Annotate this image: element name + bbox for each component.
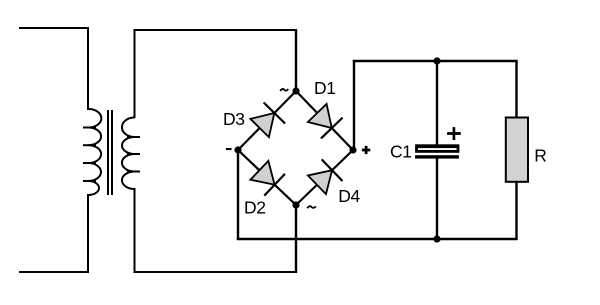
svg-text:D2: D2 [244, 197, 266, 217]
secondary winding cusp ticks [127, 137, 140, 172]
wire bridge arm bottom-right [296, 150, 353, 205]
wire down to bridge top node [295, 29, 297, 91]
plus sign at right node [362, 146, 370, 154]
junction dot capacitor bottom [433, 235, 440, 242]
resistor R body [506, 118, 528, 182]
transformer core line right [111, 110, 113, 195]
wire secondary bottom horizontal return [134, 271, 298, 273]
wire secondary top horizontal [134, 29, 298, 31]
svg-text:D3: D3 [223, 109, 245, 129]
transformer secondary winding [122, 118, 135, 190]
wire bridge bottom node down [295, 205, 297, 273]
diode D3 [249, 102, 285, 138]
transformer primary winding [89, 109, 102, 195]
wire primary top AC lead [19, 27, 89, 29]
minus sign at left node [226, 148, 232, 150]
wire capacitor bottom lead [436, 159, 438, 240]
svg-text:D1: D1 [314, 78, 336, 98]
wire negative bus vertical from left node [237, 150, 239, 240]
wire bridge arm top-right [296, 91, 353, 150]
plus sign at capacitor [447, 127, 461, 140]
junction dot bridge left node [234, 146, 241, 153]
wire primary top vertical [87, 27, 89, 110]
junction dot bridge right node [349, 146, 356, 153]
wire bridge arm bottom-left [238, 150, 296, 205]
AC tilde at top node [280, 89, 288, 91]
wire positive bus down to resistor [515, 60, 517, 118]
diode D4 [307, 159, 343, 195]
diode D2 [249, 159, 285, 195]
wire positive bus horizontal [353, 60, 518, 62]
wire primary bottom vertical [87, 194, 89, 272]
wire resistor bottom lead [515, 182, 517, 241]
wire secondary top vertical [134, 30, 136, 118]
wire secondary bottom vertical [134, 188, 136, 272]
svg-text:C1: C1 [390, 141, 412, 161]
junction dot capacitor top [433, 57, 440, 64]
diode D1 [306, 103, 342, 139]
junction dot bridge top node [292, 87, 299, 94]
capacitor C1 bottom plate [415, 155, 459, 158]
AC tilde at bottom node [307, 206, 316, 208]
wire negative bus horizontal [237, 238, 517, 240]
wire primary bottom AC lead [19, 271, 89, 273]
wire bridge arm top-left [238, 91, 296, 150]
primary winding cusp ticks [83, 128, 96, 182]
svg-text:R: R [534, 146, 547, 166]
wire positive bus vertical from right node [353, 60, 355, 150]
junction dot bridge bottom node [292, 201, 299, 208]
capacitor C1 top plate [415, 144, 459, 153]
wire capacitor top lead [436, 61, 438, 145]
svg-text:D4: D4 [338, 186, 360, 206]
transformer core line left [107, 110, 109, 195]
